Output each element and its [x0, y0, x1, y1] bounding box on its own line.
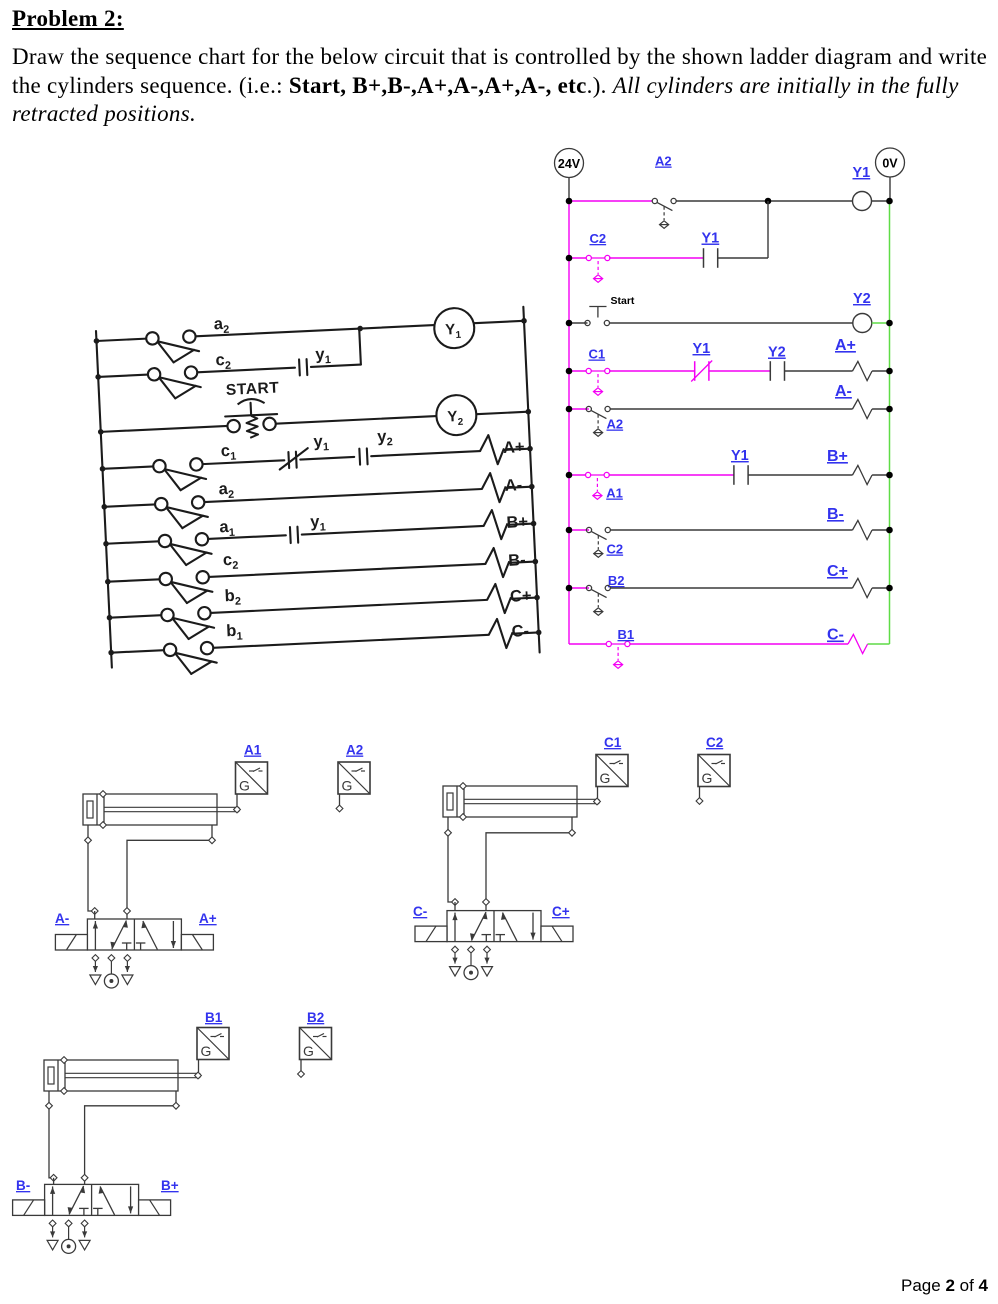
- valve B exhausts and source: [47, 1220, 90, 1253]
- label C2: [590, 231, 607, 246]
- svg-text:Y1: Y1: [693, 341, 711, 357]
- svg-text:A2: A2: [346, 743, 363, 758]
- node rung3 left rail: [566, 320, 573, 327]
- svg-text:Y1: Y1: [853, 165, 871, 181]
- hand label c2: [215, 351, 231, 373]
- node rung1 right rail: [886, 198, 893, 205]
- svg-text:C2: C2: [590, 231, 607, 246]
- hand label b2: [224, 586, 241, 608]
- hand contact y1 NC rung4: [279, 448, 309, 469]
- hand contact a2: [146, 330, 200, 364]
- svg-text:Y2: Y2: [447, 408, 464, 429]
- wire rung2 mid: [609, 257, 704, 259]
- wire rung2 to junction: [718, 201, 768, 258]
- cylinder A: [83, 791, 240, 829]
- hand label START: [226, 379, 280, 399]
- contact Y2 (relay NO): [770, 361, 784, 381]
- hand rung1 wire a2 to Y1: [96, 321, 524, 341]
- svg-text:A1: A1: [244, 743, 262, 758]
- wire sensor B1 to rod: [198, 1060, 200, 1073]
- wire rung6 a: [609, 474, 734, 476]
- wire sensor C2 stub: [696, 787, 703, 805]
- coil Y1: [853, 192, 872, 211]
- node rung5 right rail: [886, 406, 893, 413]
- svg-text:A-: A-: [504, 476, 522, 495]
- hand rung6 wire: [106, 524, 534, 544]
- svg-text:Y1: Y1: [702, 231, 720, 247]
- wire cylinder A left port to valve: [85, 825, 99, 919]
- svg-text:c2: c2: [215, 351, 231, 373]
- svg-text:A+: A+: [835, 337, 856, 354]
- label B1: [618, 627, 635, 642]
- hand contact y1 rung6: [290, 527, 298, 543]
- hand solenoid B+: [483, 509, 508, 540]
- wire sensor A1 to rod: [236, 794, 238, 806]
- wire rung5 left: [569, 408, 589, 410]
- label A2 sensor: [346, 743, 363, 758]
- svg-text:B2: B2: [608, 573, 625, 588]
- svg-text:0V: 0V: [882, 157, 898, 171]
- hand solenoid B-: [485, 547, 510, 578]
- label A-: [835, 383, 852, 400]
- svg-text:B-: B-: [827, 506, 844, 523]
- svg-text:B+: B+: [827, 448, 848, 465]
- label Y2 NO: [768, 345, 786, 361]
- svg-text:B1: B1: [618, 627, 635, 642]
- hand label c2 rung7: [223, 551, 239, 573]
- wire rung8 right: [610, 587, 852, 589]
- hand ladder left rail: [96, 331, 112, 668]
- contact Y1 rung6 (NO): [734, 465, 748, 485]
- label Y1 rung6: [731, 448, 749, 464]
- node rung3 right rail: [886, 320, 893, 327]
- contact C2 rung7 (open): [586, 527, 610, 557]
- hand label b1: [226, 621, 243, 643]
- wire rung2 left: [569, 257, 588, 259]
- solenoid B-: [853, 520, 873, 539]
- hand contact a1: [158, 533, 212, 567]
- svg-text:y1: y1: [310, 512, 326, 534]
- node rung1/rung2 junction: [765, 198, 772, 205]
- node rung2 left rail: [566, 255, 573, 262]
- valve A exhausts and source: [90, 955, 133, 988]
- label C+: [552, 904, 570, 919]
- svg-text:b2: b2: [224, 586, 241, 608]
- wire rung7 to rail: [872, 529, 889, 531]
- node rung6 right rail: [886, 472, 893, 479]
- svg-text:G: G: [600, 770, 611, 786]
- svg-text:c1: c1: [220, 442, 236, 464]
- svg-text:START: START: [226, 379, 280, 399]
- wire cylinder B left port to valve: [46, 1091, 57, 1184]
- hand rung9 wire: [111, 632, 539, 652]
- svg-text:C1: C1: [589, 347, 606, 362]
- hand solenoid C-: [488, 618, 513, 649]
- svg-text:A-: A-: [835, 383, 852, 400]
- label C1: [589, 347, 606, 362]
- svg-text:C-: C-: [511, 622, 529, 641]
- contact B1 (closed): [606, 641, 631, 668]
- wire rung5 to rail: [872, 408, 889, 410]
- label Y2 coil: [853, 291, 871, 307]
- 0V terminal: [876, 148, 905, 177]
- sensor B1: [197, 1028, 229, 1060]
- label B-: [827, 506, 844, 523]
- wire rung8 to rail: [872, 587, 889, 589]
- label B-: [16, 1178, 30, 1193]
- hand rung5 wire: [104, 487, 532, 507]
- hand contact b1: [164, 642, 218, 676]
- node rung4 left rail: [566, 368, 573, 375]
- wire cylinder B right port to valve: [81, 1091, 179, 1184]
- cylinder C: [443, 783, 600, 821]
- svg-text:y2: y2: [377, 427, 393, 449]
- hand label y2 rung4: [377, 427, 393, 449]
- svg-text:Start: Start: [611, 295, 635, 307]
- hand contact b2: [161, 607, 215, 641]
- svg-text:a1: a1: [219, 518, 235, 540]
- svg-text:Y1: Y1: [445, 321, 462, 342]
- svg-text:c2: c2: [223, 551, 239, 573]
- hand label B+: [506, 513, 528, 532]
- wire cylinder C left port to valve: [445, 817, 459, 911]
- svg-text:G: G: [201, 1043, 212, 1059]
- solenoid B+: [853, 465, 873, 484]
- svg-text:24V: 24V: [558, 157, 581, 171]
- wire rung4 c: [785, 370, 853, 372]
- valve B (5/2): [13, 1184, 171, 1215]
- hand solenoid C+: [486, 583, 511, 614]
- svg-text:B+: B+: [506, 513, 528, 532]
- pushbutton Start (NO): [585, 307, 610, 326]
- contact C1 (limit switch, closed): [569, 368, 611, 395]
- wire cylinder A right port to valve: [124, 825, 216, 919]
- hand label a1: [219, 518, 235, 540]
- label A+: [199, 911, 217, 926]
- hand coil Y1: [433, 307, 475, 349]
- valve C exhausts and source: [450, 946, 493, 979]
- svg-text:A2: A2: [607, 417, 624, 432]
- svg-text:C2: C2: [706, 735, 723, 750]
- hand contact y1 rung2: [299, 359, 307, 375]
- hand right rail nodes: [521, 318, 542, 636]
- hand solenoid A-: [481, 472, 506, 503]
- wire rung6 to rail: [872, 474, 889, 476]
- wire cylinder C right port to valve: [483, 817, 576, 911]
- wire sensor C1 to rod: [597, 787, 599, 799]
- sensor A2: [338, 762, 370, 794]
- svg-text:a2: a2: [218, 480, 234, 502]
- hand contact c2: [148, 366, 202, 400]
- svg-text:C2: C2: [607, 542, 624, 557]
- contact A2 (NO limit switch, open): [652, 198, 676, 228]
- hand coil Y2: [435, 394, 477, 436]
- svg-text:B2: B2: [307, 1010, 324, 1025]
- svg-text:C-: C-: [827, 627, 844, 644]
- solenoid A+: [853, 361, 873, 380]
- solenoid C+: [853, 578, 873, 597]
- hand label a2: [213, 315, 229, 337]
- hand rung8 wire: [110, 598, 538, 618]
- wire rung6 b: [748, 474, 852, 476]
- wire rung4 to rail: [872, 370, 889, 372]
- right 0V rail: [889, 177, 892, 644]
- svg-text:C1: C1: [604, 735, 622, 750]
- label B+: [827, 448, 848, 465]
- svg-text:A+: A+: [503, 438, 525, 457]
- svg-text:b1: b1: [226, 621, 243, 643]
- node rung8 right rail: [886, 585, 893, 592]
- valve A (5/2): [55, 919, 213, 950]
- svg-text:y1: y1: [315, 345, 331, 367]
- svg-text:a2: a2: [213, 315, 229, 337]
- svg-text:C+: C+: [510, 587, 532, 606]
- hand contact a2 rung5: [155, 496, 209, 530]
- label C-: [827, 627, 844, 644]
- wire rung3 left: [569, 322, 588, 324]
- label B2 sensor: [307, 1010, 324, 1025]
- svg-text:A1: A1: [606, 486, 623, 501]
- svg-text:A+: A+: [199, 911, 217, 926]
- label B1: [205, 1010, 223, 1025]
- svg-text:B-: B-: [508, 551, 526, 570]
- svg-text:Y2: Y2: [768, 345, 786, 361]
- label A2 rung5: [607, 417, 624, 432]
- sensor C2: [698, 755, 730, 787]
- hand node rung1 branch: [357, 326, 363, 332]
- hand rung4 wire: [103, 449, 531, 469]
- contact Y1 (relay NC): [691, 361, 712, 382]
- label C2 rung7: [607, 542, 624, 557]
- svg-text:B-: B-: [16, 1178, 30, 1193]
- wire sensor B2 stub: [298, 1060, 305, 1078]
- svg-text:G: G: [702, 770, 713, 786]
- wire rung4 a: [609, 370, 695, 372]
- contact C2 (limit switch, closed): [586, 255, 611, 282]
- svg-text:C+: C+: [552, 904, 570, 919]
- contact A1 (closed): [569, 472, 610, 499]
- label A1: [244, 743, 262, 758]
- wire rung1 right: [676, 200, 852, 202]
- hand contact y2 rung4: [359, 448, 367, 464]
- contact Y1 (relay NO): [704, 248, 718, 268]
- label A1: [606, 486, 623, 501]
- hand rung7 wire: [108, 562, 536, 582]
- sensor A1: [236, 762, 268, 794]
- hand rung3 wire: [101, 412, 529, 432]
- hand label C-: [511, 622, 529, 641]
- wire rung4 b: [709, 370, 770, 372]
- label C2 sensor: [706, 735, 723, 750]
- wire rung3 right: [610, 322, 853, 324]
- svg-text:Y1: Y1: [731, 448, 749, 464]
- hand solenoid A+: [479, 434, 504, 465]
- node rung5 left rail: [566, 406, 573, 413]
- wire rung7 right: [610, 529, 852, 531]
- hand pushbutton START: [224, 398, 278, 439]
- wire rung9 right: [630, 643, 848, 645]
- label C+: [827, 563, 848, 580]
- contact A2 rung5 (open): [586, 406, 610, 436]
- label B2: [608, 573, 625, 588]
- label Y1 coil: [853, 165, 871, 181]
- wire Y1 coil to 0V rail: [872, 200, 890, 202]
- svg-text:G: G: [239, 778, 250, 794]
- hand label y1 rung4: [313, 432, 329, 454]
- hand label y1 rung6: [310, 512, 326, 534]
- 24V supply terminal: [555, 149, 584, 178]
- hand label A+: [503, 438, 525, 457]
- valve C (5/2): [415, 911, 573, 942]
- wire rung9 left: [569, 643, 609, 645]
- svg-text:A-: A-: [55, 911, 69, 926]
- label Y1 NC: [693, 341, 711, 357]
- wire rung5 right: [610, 408, 852, 410]
- wire rung1 left: [569, 200, 652, 202]
- node rung8 left rail: [566, 585, 573, 592]
- solenoid C-: [848, 634, 868, 653]
- wire Y2 coil to 0V rail (green): [872, 322, 890, 324]
- label A2: [655, 154, 672, 169]
- node rung7 left rail: [566, 527, 573, 534]
- svg-text:B+: B+: [161, 1178, 179, 1193]
- label Start: [611, 295, 635, 307]
- label C-: [413, 904, 427, 919]
- hand label c1: [220, 442, 236, 464]
- label C1: [604, 735, 622, 750]
- svg-text:G: G: [303, 1043, 314, 1059]
- hand ladder right rail: [523, 307, 539, 653]
- node rung1 left rail: [566, 198, 573, 205]
- label A+: [835, 337, 856, 354]
- svg-text:Y2: Y2: [853, 291, 871, 307]
- hand contact c1: [153, 458, 207, 492]
- solenoid A-: [853, 399, 873, 418]
- left 24V rail: [568, 178, 570, 645]
- contact B2 (open): [586, 585, 610, 615]
- wire rung7 left: [569, 529, 589, 531]
- svg-text:C-: C-: [413, 904, 427, 919]
- svg-text:y1: y1: [313, 432, 329, 454]
- label B+: [161, 1178, 179, 1193]
- svg-text:C+: C+: [827, 563, 848, 580]
- hand label y1 rung2: [315, 345, 331, 367]
- node rung6 left rail: [566, 472, 573, 479]
- hand label C+: [510, 587, 532, 606]
- coil Y2: [853, 314, 872, 333]
- wire rung8 left: [569, 587, 589, 589]
- node rung4 right rail: [886, 368, 893, 375]
- hand left rail nodes: [94, 338, 115, 656]
- hand label A-: [504, 476, 522, 495]
- hand label a2 rung5: [218, 480, 234, 502]
- label Y1 contact: [702, 231, 720, 247]
- sensor C1: [596, 755, 628, 787]
- wire sensor A2 stub: [336, 794, 343, 812]
- sensor B2: [300, 1028, 332, 1060]
- svg-text:G: G: [342, 778, 353, 794]
- node rung7 right rail: [886, 527, 893, 534]
- hand contact c2 rung7: [159, 571, 213, 605]
- wire rung9 to rail (green): [868, 643, 890, 645]
- svg-text:A2: A2: [655, 154, 672, 169]
- hand label B-: [508, 551, 526, 570]
- cylinder B: [44, 1057, 201, 1095]
- hand rung2 wire c2 y1: [96, 329, 360, 377]
- label A-: [55, 911, 69, 926]
- svg-text:B1: B1: [205, 1010, 223, 1025]
